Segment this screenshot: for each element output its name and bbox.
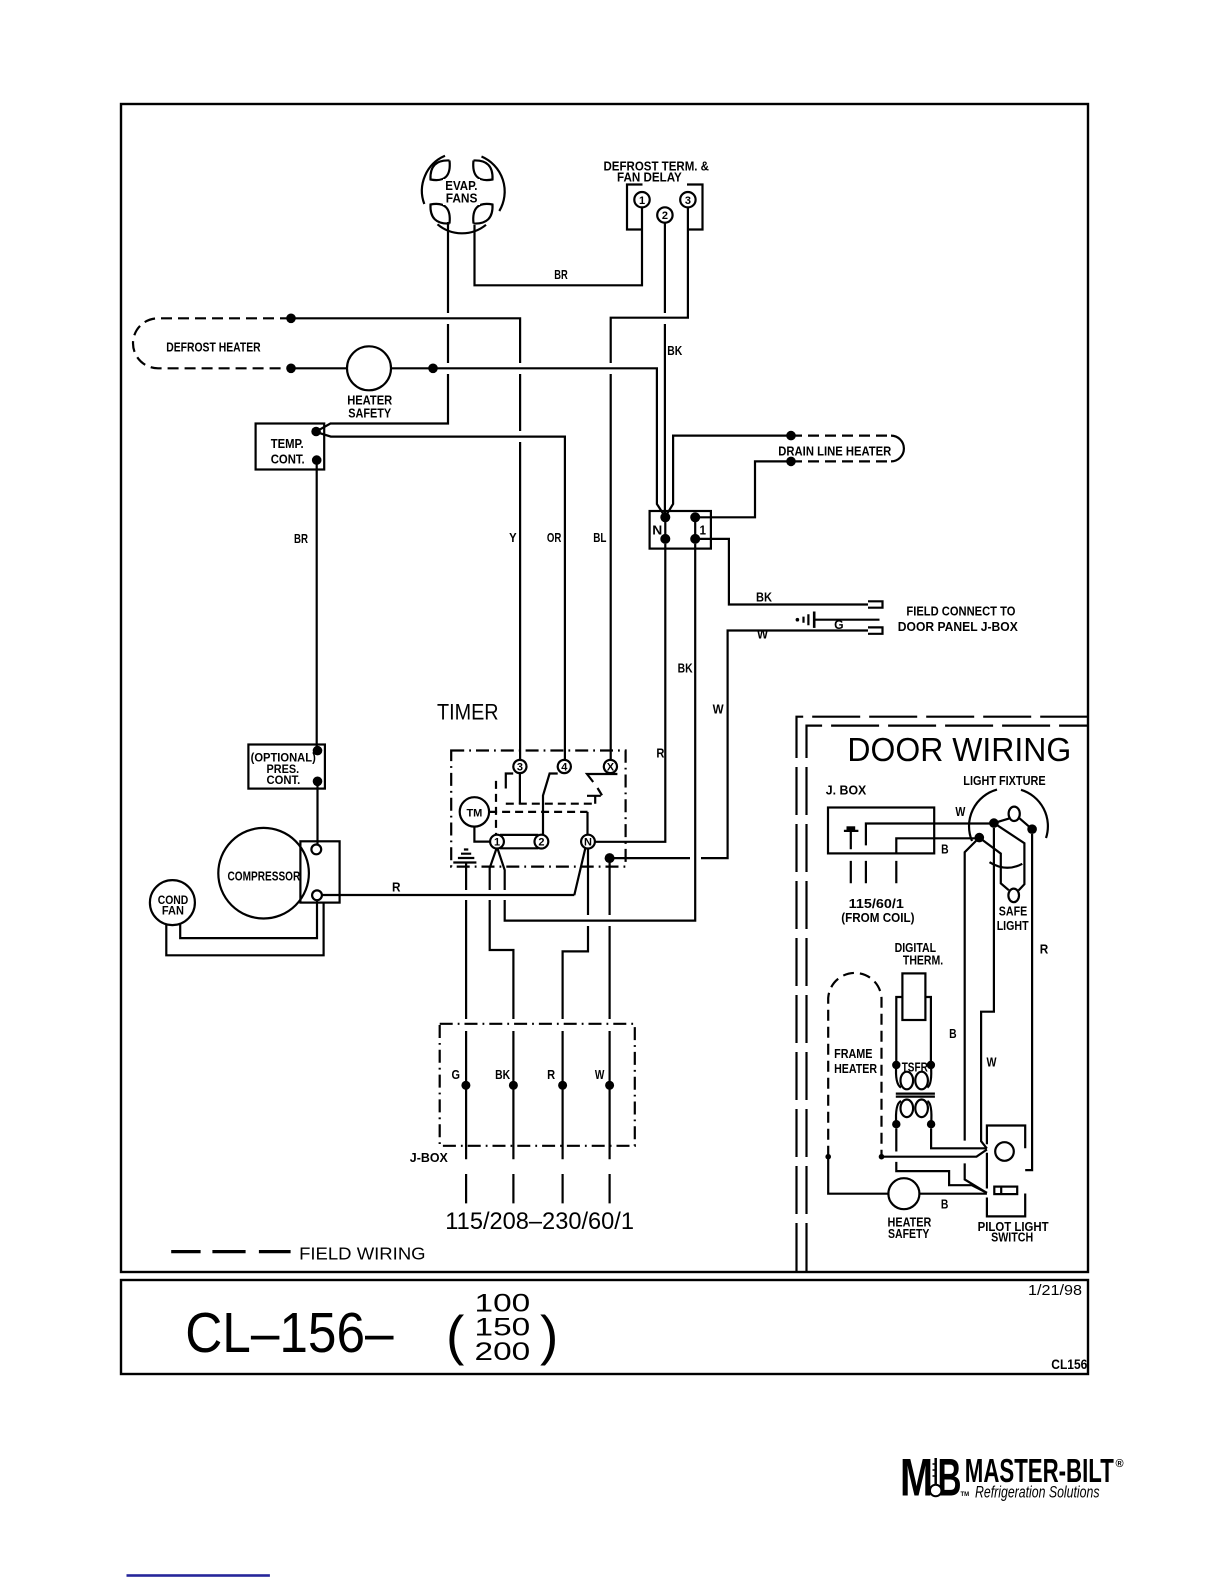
junction defrost heater top bbox=[286, 314, 296, 324]
blue underline artifact bbox=[127, 1574, 270, 1577]
svg-text:®: ® bbox=[1116, 1458, 1124, 1470]
wire G to field bbox=[815, 619, 880, 621]
cond fan circle bbox=[150, 880, 195, 925]
svg-text:G: G bbox=[452, 1068, 461, 1082]
door j box supply stubs bbox=[851, 861, 897, 883]
timer terminal 4 bbox=[558, 760, 571, 773]
svg-text:TEMP.: TEMP. bbox=[271, 436, 304, 451]
wire heater safety output to terminal block N bbox=[391, 368, 665, 516]
terminal 2 of defrost delay bbox=[657, 207, 672, 222]
svg-text:200: 200 bbox=[475, 1338, 531, 1366]
svg-text:W: W bbox=[757, 626, 769, 641]
wire frame heater left to door heater safety bbox=[828, 1157, 888, 1194]
defrost heater dashed stadium outline bbox=[133, 318, 291, 368]
svg-text:CONT.: CONT. bbox=[267, 773, 301, 787]
junction W fixture bbox=[989, 818, 999, 828]
timer internal stem terminal 3 bbox=[506, 773, 520, 804]
junction defrost heater bottom bbox=[286, 364, 296, 374]
transformer core bbox=[896, 1094, 935, 1097]
wire drain line heater bottom to terminal block 1 bbox=[700, 461, 791, 517]
junction R fixture bbox=[1027, 824, 1037, 834]
transformer primary winding bbox=[901, 1072, 914, 1090]
timer internal dashed link B bbox=[489, 811, 587, 813]
svg-text:4: 4 bbox=[561, 761, 568, 773]
svg-text:SWITCH: SWITCH bbox=[991, 1230, 1033, 1244]
timer switch arm terminal 4 to 2 bbox=[543, 774, 558, 835]
svg-text:R: R bbox=[392, 880, 401, 895]
svg-text:BL: BL bbox=[593, 530, 606, 545]
wire transformer left to pilot switch bbox=[896, 1128, 987, 1193]
wire BL defrost delay terminal 3 to timer X bbox=[611, 207, 688, 760]
wire R compressor to timer N diagonal bbox=[322, 894, 574, 896]
svg-text:BK: BK bbox=[495, 1068, 510, 1082]
j-box dashed box bbox=[440, 1024, 635, 1146]
svg-text:2: 2 bbox=[662, 210, 668, 222]
wire terminal N internal bbox=[665, 517, 695, 539]
junction drain line heater top bbox=[786, 431, 796, 441]
svg-text:W: W bbox=[595, 1068, 605, 1082]
svg-text:OR: OR bbox=[547, 530, 562, 545]
wire compressor bottom terminal to cond fan bbox=[180, 900, 317, 938]
timer terminal 2 bbox=[535, 835, 549, 849]
svg-text:DRAIN LINE HEATER: DRAIN LINE HEATER bbox=[778, 445, 891, 459]
wire BK terminal block 1 to field connector bbox=[695, 539, 868, 605]
wire W junction down to j-box W bbox=[608, 858, 610, 1203]
field wiring legend dashes bbox=[171, 1250, 290, 1253]
transformer bottom right terminal bbox=[927, 1120, 935, 1128]
compressor terminal bottom bbox=[312, 890, 322, 900]
digital thermometer body bbox=[896, 997, 931, 1065]
optional pressure control box bbox=[248, 745, 325, 789]
terminal 3 of defrost delay bbox=[680, 192, 695, 207]
wire pressure control to compressor bbox=[316, 781, 318, 844]
heater safety circle bbox=[347, 346, 391, 390]
timer link bar terminals 1 to 2 bbox=[500, 835, 538, 848]
temp control bottom terminal bbox=[312, 455, 322, 465]
pilot light switch box bbox=[987, 1126, 1025, 1217]
door j box bbox=[828, 808, 934, 854]
transformer bottom left terminal bbox=[892, 1120, 900, 1128]
logo thermometer bbox=[934, 1458, 937, 1486]
svg-text:BR: BR bbox=[554, 267, 568, 282]
wire B door heater safety to pilot switch bbox=[919, 1193, 987, 1195]
pilot light circle bbox=[995, 1142, 1014, 1161]
wire W field connector to timer area junction bbox=[614, 631, 868, 859]
timer terminal 1 bbox=[490, 835, 504, 849]
svg-text:BK: BK bbox=[667, 343, 682, 358]
svg-text:N: N bbox=[584, 837, 592, 849]
timer N switch diagonal bbox=[574, 848, 585, 896]
svg-text:DOOR WIRING: DOOR WIRING bbox=[847, 731, 1071, 768]
wire timer motor to terminal 1 bbox=[474, 827, 490, 842]
svg-text:FRAME: FRAME bbox=[834, 1047, 872, 1061]
svg-text:Y: Y bbox=[509, 530, 517, 545]
svg-text:2: 2 bbox=[538, 837, 544, 849]
wire timer N down to j-box R bbox=[563, 849, 588, 1204]
svg-text:3: 3 bbox=[685, 195, 691, 207]
svg-text:R: R bbox=[656, 746, 665, 761]
svg-text:): ) bbox=[540, 1304, 558, 1366]
svg-text:B: B bbox=[941, 842, 949, 856]
wire evap fan left lead down to temp control bbox=[317, 222, 448, 431]
wire R fixture down to pilot switch bbox=[1025, 834, 1032, 1170]
junction drain line heater bottom bbox=[786, 457, 796, 467]
j-box terminal BK bbox=[509, 1081, 518, 1090]
terminal N bottom bbox=[660, 534, 670, 544]
svg-text:CL156: CL156 bbox=[1051, 1357, 1087, 1372]
wire B fixture down to pilot switch bbox=[965, 838, 987, 1193]
pressure control bottom terminal bbox=[313, 777, 323, 787]
wire W fixture down to pilot switch bbox=[981, 828, 994, 1149]
field connector W bbox=[868, 627, 883, 633]
ground bars under timer motor bbox=[453, 850, 476, 863]
junction B fixture bbox=[975, 833, 985, 843]
svg-text:DEFROST HEATER: DEFROST HEATER bbox=[166, 340, 261, 355]
transformer secondary winding bbox=[901, 1100, 914, 1118]
timer internal stem terminal N bbox=[586, 812, 588, 835]
wire transformer right to pilot switch bbox=[931, 1128, 987, 1148]
svg-text:HEATER: HEATER bbox=[834, 1062, 877, 1076]
light fixture dome arcs bbox=[969, 790, 1048, 841]
door wiring inner dashed boundary bbox=[807, 726, 1088, 1271]
transformer top right terminal bbox=[927, 1061, 935, 1069]
pressure control top terminal bbox=[313, 746, 323, 756]
svg-text:FAN: FAN bbox=[162, 906, 184, 918]
svg-text:1/21/98: 1/21/98 bbox=[1028, 1283, 1082, 1299]
compressor terminal box bbox=[300, 841, 339, 902]
evap fans motor symbol bbox=[422, 156, 505, 233]
terminal 1 of defrost delay bbox=[634, 192, 649, 207]
svg-text:115/208–230/60/1: 115/208–230/60/1 bbox=[445, 1208, 634, 1235]
svg-text:B: B bbox=[941, 1197, 949, 1211]
wire cond fan to compressor box bbox=[166, 903, 323, 956]
terminal N top bbox=[660, 512, 670, 522]
timer internal dashed link C bbox=[495, 781, 497, 835]
drawing border frame bbox=[121, 104, 1088, 1272]
svg-text:J. BOX: J. BOX bbox=[826, 783, 867, 797]
svg-text:SAFETY: SAFETY bbox=[888, 1227, 930, 1241]
svg-text:BK: BK bbox=[756, 590, 773, 605]
svg-text:DOOR PANEL J-BOX: DOOR PANEL J-BOX bbox=[898, 620, 1019, 634]
svg-text:FANS: FANS bbox=[446, 190, 478, 205]
safe light shield arc bbox=[990, 862, 1023, 868]
svg-text:M: M bbox=[900, 1449, 933, 1508]
temp control box bbox=[256, 424, 325, 470]
svg-text:THERM.: THERM. bbox=[903, 954, 943, 968]
safe light body bbox=[979, 823, 1024, 890]
door wiring outer dashed boundary bbox=[797, 717, 1088, 1271]
wire R terminal block N to timer N bbox=[595, 544, 665, 842]
junction heater safety output bbox=[428, 364, 438, 374]
drain line heater end arc bbox=[891, 436, 904, 462]
wire B door j box to light fixture bbox=[896, 838, 979, 853]
svg-text:1: 1 bbox=[639, 195, 645, 207]
timer cam zigzag at X bbox=[587, 774, 617, 804]
svg-text:TM: TM bbox=[466, 808, 482, 820]
wire drain line heater top to terminal block N bbox=[666, 436, 791, 516]
svg-text:W: W bbox=[713, 702, 725, 717]
svg-text:Refrigeration Solutions: Refrigeration Solutions bbox=[975, 1483, 1100, 1502]
svg-text:3: 3 bbox=[517, 761, 523, 773]
timer terminal X bbox=[604, 760, 617, 773]
svg-text:R: R bbox=[1040, 943, 1049, 957]
svg-text:1: 1 bbox=[494, 837, 500, 849]
j-box terminal W bbox=[605, 1081, 614, 1090]
svg-text:FAN DELAY: FAN DELAY bbox=[617, 170, 682, 185]
pilot switch toggle bbox=[994, 1187, 1017, 1195]
wire BR evap fan right lead to defrost delay terminal 1 bbox=[475, 207, 643, 285]
svg-text:B: B bbox=[938, 1449, 962, 1508]
digital thermometer sensor bbox=[902, 973, 925, 1020]
light fixture bulb bbox=[1009, 807, 1020, 821]
safe light bulb bbox=[1008, 889, 1019, 903]
svg-text:(: ( bbox=[446, 1304, 464, 1366]
wire G timer ground to j-box bbox=[465, 863, 467, 1204]
wire BR temp control to pressure control bbox=[316, 464, 318, 751]
svg-text:R: R bbox=[547, 1068, 555, 1082]
compressor circle bbox=[218, 828, 309, 919]
svg-text:W: W bbox=[955, 805, 965, 819]
wire timer 1 left leg to j-box BK bbox=[490, 849, 514, 1204]
svg-text:LIGHT: LIGHT bbox=[997, 919, 1029, 933]
temp control top terminal bbox=[311, 427, 321, 437]
svg-text:X: X bbox=[607, 761, 615, 773]
timer motor TM bbox=[460, 797, 489, 826]
svg-text:SAFE: SAFE bbox=[999, 904, 1027, 918]
svg-text:LIGHT FIXTURE: LIGHT FIXTURE bbox=[963, 774, 1045, 788]
svg-text:B: B bbox=[949, 1027, 957, 1041]
timer internal dashed link A bbox=[506, 803, 595, 805]
svg-text:J-BOX: J-BOX bbox=[410, 1151, 449, 1165]
svg-text:BK: BK bbox=[678, 661, 693, 676]
defrost term and fan delay box bbox=[627, 185, 703, 230]
title block box bbox=[121, 1280, 1088, 1374]
door heater safety circle bbox=[888, 1178, 919, 1209]
junction W wire at timer bbox=[605, 853, 615, 863]
svg-text:FIELD WIRING: FIELD WIRING bbox=[299, 1244, 426, 1264]
wire Y defrost heater top to timer 3 bbox=[291, 318, 520, 760]
svg-text:BR: BR bbox=[294, 531, 308, 546]
svg-text:1: 1 bbox=[700, 523, 707, 538]
wire W door j box to light fixture bbox=[866, 824, 994, 846]
svg-text:CONT.: CONT. bbox=[271, 451, 305, 466]
svg-text:W: W bbox=[987, 1056, 997, 1070]
wire BK terminal block 1 down to timer 1 bbox=[498, 544, 696, 921]
terminal 1 bottom bbox=[690, 534, 700, 544]
compressor terminal top bbox=[311, 845, 321, 855]
svg-text:CL–156–: CL–156– bbox=[185, 1301, 394, 1365]
timer terminal N bbox=[581, 835, 595, 849]
ground symbol G bbox=[796, 618, 800, 622]
terminal block N 1 box bbox=[650, 511, 711, 549]
door j box ground tap symbol bbox=[844, 828, 859, 849]
bulb leads bbox=[994, 818, 1032, 829]
timer terminal 3 bbox=[513, 760, 526, 773]
frame heater dashed outline bbox=[828, 973, 881, 1157]
wire OR temp control to timer 4 bbox=[317, 432, 565, 760]
svg-text:FIELD CONNECT TO: FIELD CONNECT TO bbox=[906, 605, 1015, 619]
transformer top left terminal bbox=[892, 1061, 900, 1069]
j-box terminal G bbox=[461, 1081, 470, 1090]
terminal 1 top bbox=[690, 512, 700, 522]
svg-text:COMPRESSOR: COMPRESSOR bbox=[228, 869, 301, 883]
svg-text:N: N bbox=[652, 523, 662, 538]
wire frame heater right to pilot switch bbox=[882, 1150, 987, 1157]
svg-text:TM: TM bbox=[961, 1492, 970, 1498]
junction frame heater left bbox=[825, 1154, 831, 1160]
svg-text:TIMER: TIMER bbox=[437, 700, 499, 725]
junction frame heater right bbox=[879, 1154, 885, 1160]
wire defrost heater bottom to heater safety bbox=[291, 367, 347, 369]
j-box terminal R bbox=[558, 1081, 567, 1090]
svg-text:115/60/1: 115/60/1 bbox=[849, 897, 904, 911]
timer dashed box bbox=[451, 751, 625, 867]
field connector BK bbox=[868, 601, 883, 607]
drain line heater dashed stadium outline bbox=[791, 436, 891, 462]
svg-text:SAFETY: SAFETY bbox=[348, 405, 391, 420]
svg-text:(FROM COIL): (FROM COIL) bbox=[841, 911, 914, 925]
wire BK defrost delay terminal 2 down to terminal block N bbox=[664, 223, 666, 518]
